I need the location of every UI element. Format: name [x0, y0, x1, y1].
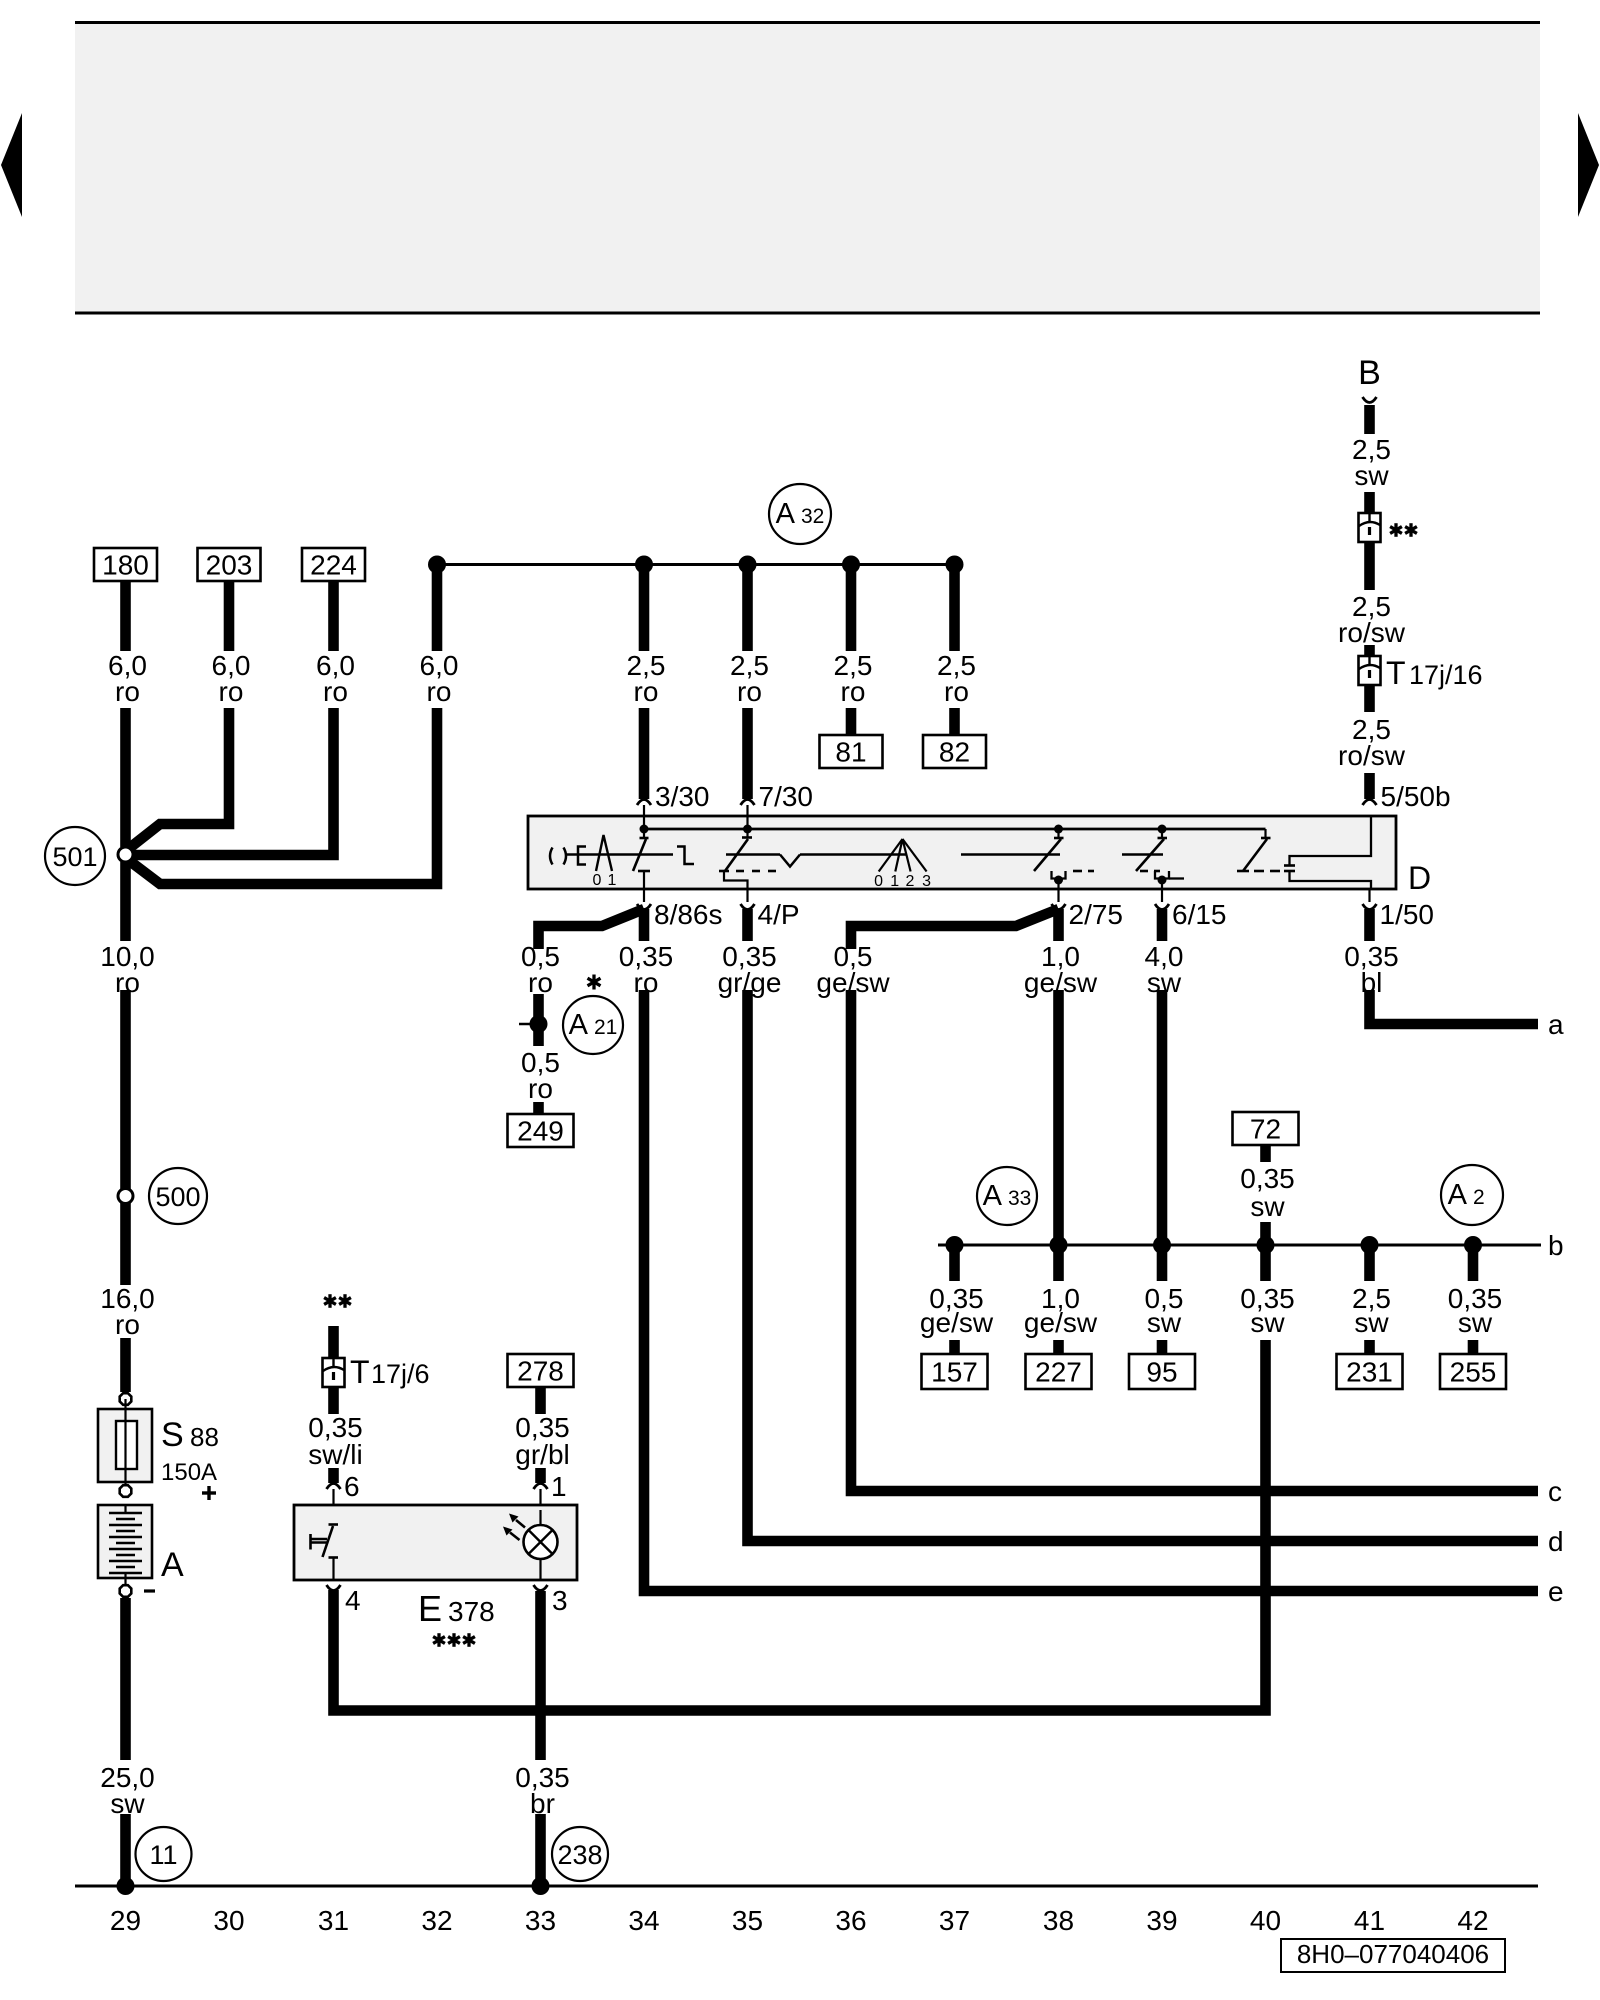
D switch4 (6/15) [1161, 829, 1163, 838]
wire 25,0 sw upper [120, 1598, 131, 1760]
svg-text:72: 72 [1250, 1114, 1281, 1145]
junction dot ground 29 [117, 1877, 135, 1895]
wire 6,0 ro col 32 upper [432, 565, 443, 652]
svg-text:30: 30 [213, 1905, 244, 1936]
junction dot b col 40 [1257, 1236, 1275, 1254]
svg-text:2/75: 2/75 [1069, 899, 1124, 930]
junction dot col 35 [739, 556, 757, 574]
terminal at fuse top [120, 1393, 132, 1405]
label + (battery) [202, 1491, 216, 1494]
terminal box 81 [820, 735, 883, 768]
svg-text:38: 38 [1043, 1905, 1074, 1936]
label - (battery) [144, 1589, 155, 1592]
terminal socket below B [1363, 397, 1377, 403]
wire 6,0 ro col 30 upper [224, 581, 235, 651]
terminal box 82 [923, 735, 986, 768]
terminal battery minus [120, 1585, 132, 1597]
wire branch 224 to node 501 [133, 708, 334, 855]
wire to pin 1 [535, 1468, 546, 1483]
svg-text:sw: sw [1354, 460, 1389, 491]
D main line notch [726, 853, 780, 856]
D bus dot 2/75 [1054, 825, 1063, 834]
svg-text:29: 29 [110, 1905, 141, 1936]
connector T17j/16 symbol [1359, 656, 1381, 685]
svg-text:255: 255 [1450, 1357, 1497, 1388]
svg-text:0: 0 [874, 873, 883, 890]
circle A21 [563, 996, 623, 1054]
svg-text:sw: sw [1147, 1307, 1182, 1338]
svg-text:231: 231 [1346, 1357, 1393, 1388]
circle 238 [552, 1827, 608, 1881]
svg-text:2: 2 [1473, 1186, 1485, 1209]
svg-text:S: S [161, 1416, 184, 1454]
wire 0,35 ro upper [639, 909, 650, 941]
svg-text:32: 32 [421, 1905, 452, 1936]
wire 2,5 ro col 36 upper [846, 565, 857, 652]
D bus dot 3/30 [640, 825, 649, 834]
svg-text:gr/bl: gr/bl [515, 1439, 569, 1470]
wire stub to box 157 [949, 1340, 960, 1354]
junction dot b col 39 [1153, 1236, 1171, 1254]
svg-text:203: 203 [206, 550, 253, 581]
wire stub to box 231 [1364, 1340, 1375, 1354]
battery A [98, 1505, 152, 1585]
junction dot col 36 [842, 556, 860, 574]
wire into connector T17j/16 [1364, 645, 1375, 656]
svg-text:ro: ro [944, 676, 969, 707]
svg-text:D: D [1408, 860, 1431, 896]
circle 500 [149, 1168, 207, 1224]
junction dot col 37 [946, 556, 964, 574]
wire 2,5 ro col 37 lower [949, 708, 960, 735]
terminal box 227 [1026, 1354, 1092, 1389]
pin socket 1 [534, 1484, 548, 1490]
E378 switch symbol [329, 1523, 339, 1526]
terminal box 180 [94, 548, 157, 581]
terminal box 203 [198, 548, 261, 581]
wire 0,35 bl upper [1364, 909, 1375, 941]
svg-text:ro: ro [528, 967, 553, 998]
wire 2,5 ro col 36 lower [846, 708, 857, 735]
svg-text:34: 34 [628, 1905, 659, 1936]
svg-text:3: 3 [552, 1585, 568, 1616]
pin line 1 [539, 1489, 541, 1525]
wire 10,0 ro upper [120, 862, 131, 941]
svg-text:A: A [776, 498, 796, 530]
svg-text:ro/sw: ro/sw [1338, 617, 1406, 648]
svg-text:40: 40 [1250, 1905, 1281, 1936]
svg-text:T: T [350, 1354, 370, 1390]
svg-text:95: 95 [1146, 1357, 1177, 1388]
pin line 6 [332, 1489, 334, 1523]
node 500 (open junction) [118, 1189, 133, 1204]
wire a: 0,35 bl to right edge [1370, 990, 1539, 1024]
pin socket 5/50b [1363, 800, 1377, 806]
svg-text:31: 31 [318, 1905, 349, 1936]
svg-text:ro: ro [427, 676, 452, 707]
wire 2,5 ro col 35 upper [742, 565, 753, 652]
wire 1,0 ge/sw to b-line [1053, 990, 1064, 1281]
pin socket 4 [327, 1585, 341, 1591]
E378 lamp symbol [524, 1525, 558, 1559]
svg-text:3/30: 3/30 [655, 781, 710, 812]
terminal box 95 [1129, 1354, 1195, 1389]
svg-text:5/50b: 5/50b [1381, 781, 1451, 812]
terminal box 249 [508, 1114, 574, 1147]
svg-text:378: 378 [448, 1596, 495, 1627]
svg-text:d: d [1548, 1526, 1564, 1557]
svg-text:T: T [1386, 655, 1406, 691]
wire stub below b col 39 [1157, 1245, 1168, 1281]
wire 2,5 ro col 34 upper [639, 565, 650, 652]
wire 2,5 ro col 37 upper [949, 565, 960, 652]
D main line right [961, 853, 1060, 856]
wire 2,5 ro col 35 lower [742, 708, 753, 799]
svg-text:4/P: 4/P [758, 899, 800, 930]
bottom rail line [75, 1885, 1538, 1888]
pin socket bottom 8/86s [643, 889, 645, 902]
pin socket top col 35 [741, 800, 755, 806]
marker *** (E378) [437, 1633, 440, 1647]
ignition-starter switch D box [528, 816, 1396, 889]
svg-text:ro: ro [115, 1309, 140, 1340]
svg-text:A: A [569, 1009, 589, 1041]
svg-text:A: A [161, 1546, 184, 1584]
svg-text:35: 35 [732, 1905, 763, 1936]
svg-text:ro: ro [634, 676, 659, 707]
svg-text:B: B [1358, 354, 1381, 392]
svg-text:ge/sw: ge/sw [1024, 1307, 1098, 1338]
D wire 5/50b to contact [1290, 816, 1372, 866]
svg-text:1: 1 [551, 1471, 567, 1502]
wire 25,0 sw lower [120, 1814, 131, 1886]
svg-text:238: 238 [557, 1840, 602, 1870]
wire 6,0 ro col29 mid [120, 708, 131, 847]
wire stub to box 249 [533, 1102, 544, 1114]
svg-text:7/30: 7/30 [759, 781, 814, 812]
terminal box 231 [1337, 1354, 1403, 1389]
wire sw/li into connector [328, 1326, 339, 1358]
pin socket bottom 2/75 [1057, 889, 1059, 902]
svg-text:88: 88 [190, 1422, 219, 1452]
terminal box 255 [1440, 1354, 1506, 1389]
wire 4,0 sw to b-line [1157, 990, 1168, 1245]
wire stub to box 227 [1053, 1340, 1064, 1354]
circle 11 [136, 1827, 192, 1881]
wire 0,35 sw long vertical + return to E378 pin4 [334, 1340, 1266, 1711]
svg-text:36: 36 [835, 1905, 866, 1936]
wire 0,35 sw stub below 72 [1260, 1145, 1271, 1162]
wire 1,0 ge/sw upper [1053, 909, 1064, 941]
svg-text:17j/16: 17j/16 [1409, 660, 1483, 690]
svg-text:E: E [418, 1588, 442, 1629]
svg-text:11: 11 [149, 1840, 177, 1870]
D switch1 (3/30-8/86s) [643, 829, 645, 838]
D main line left [567, 853, 673, 856]
svg-text:sw/li: sw/li [308, 1439, 362, 1470]
svg-text:A: A [1448, 1179, 1468, 1211]
svg-text:41: 41 [1354, 1905, 1385, 1936]
wire 0,5 ge/sw elbow from 2/75 [851, 909, 1059, 949]
svg-text:A: A [983, 1180, 1003, 1212]
svg-text:249: 249 [517, 1116, 564, 1147]
terminal box 278 [508, 1354, 574, 1387]
svg-text:0,35: 0,35 [1240, 1163, 1295, 1194]
svg-text:21: 21 [594, 1016, 617, 1039]
wire e: 0,35 ro to right edge [644, 990, 1538, 1591]
wire 2,5 sw from B [1364, 405, 1375, 434]
svg-text:sw: sw [1250, 1307, 1285, 1338]
svg-text:82: 82 [939, 737, 970, 768]
svg-text:81: 81 [835, 737, 866, 768]
junction dot b col 41 [1361, 1236, 1379, 1254]
D fan selector [879, 839, 903, 872]
D bus dot 6/15 [1158, 825, 1167, 834]
junction dot on 0,5 ro [530, 1015, 548, 1033]
svg-text:157: 157 [931, 1357, 978, 1388]
svg-text:8/86s: 8/86s [654, 899, 723, 930]
D pin line 7/30 [746, 805, 748, 829]
pin socket bottom 6/15 [1161, 889, 1163, 902]
svg-text:278: 278 [517, 1356, 564, 1387]
D wire contact to 1/50 [1290, 871, 1372, 889]
node 501 (open junction) [118, 847, 133, 862]
D symbol bracket [578, 847, 586, 865]
svg-text:ro: ro [219, 676, 244, 707]
wire 0,35 br lower [535, 1814, 546, 1886]
D symbol ( ) [550, 848, 553, 865]
wire to pin 6 [328, 1468, 339, 1483]
terminal battery plus [120, 1485, 132, 1497]
svg-text:500: 500 [155, 1182, 200, 1212]
pin socket 6 [327, 1484, 341, 1490]
wire 6,0 ro col 29 upper [120, 581, 131, 651]
pin socket top col 34 [637, 800, 651, 806]
circle A33 [977, 1167, 1037, 1225]
D switch3 (2/75) [1057, 829, 1059, 838]
wire 16,0 ro lower [120, 1338, 131, 1392]
svg-text:sw: sw [1354, 1307, 1389, 1338]
svg-text:ge/sw: ge/sw [920, 1307, 994, 1338]
left nav arrow [1, 113, 22, 217]
fuse S88 [98, 1399, 152, 1491]
svg-text:a: a [1548, 1009, 1564, 1040]
drawing number box [1281, 1939, 1505, 1972]
svg-text:6: 6 [344, 1471, 360, 1502]
wire d: 0,35 gr/ge to right edge [748, 990, 1539, 1541]
svg-text:c: c [1548, 1476, 1562, 1507]
svg-text:b: b [1548, 1230, 1564, 1261]
svg-text:sw: sw [1458, 1307, 1493, 1338]
wire net A32 (thin bus) [437, 563, 955, 566]
connector ** symbol [1359, 513, 1381, 542]
wire into connector ** [1364, 492, 1375, 513]
svg-text:33: 33 [525, 1905, 556, 1936]
D symbol lambda [596, 835, 612, 871]
wire stub below b col 41 [1364, 1245, 1375, 1281]
marker * (A21) [592, 975, 595, 990]
svg-text:ro/sw: ro/sw [1338, 740, 1406, 771]
pin socket bottom 4/P [746, 889, 748, 902]
svg-text:42: 42 [1457, 1905, 1488, 1936]
wire branch 203 to node 501 [127, 708, 229, 850]
wire to pin 5/50b [1364, 773, 1375, 799]
header band [75, 24, 1540, 312]
wire c: 0,5 ge/sw to right edge [851, 990, 1538, 1491]
svg-text:3: 3 [922, 873, 931, 890]
svg-text:1: 1 [608, 872, 617, 889]
svg-text:1/50: 1/50 [1380, 899, 1435, 930]
wire 0,35 br upper [535, 1591, 546, 1760]
svg-text:8H0–077040406: 8H0–077040406 [1297, 1939, 1489, 1969]
wire 2,5 ro/sw [1364, 542, 1375, 590]
wire 2,5 ro/sw lower [1364, 685, 1375, 712]
junction dot b col 42 [1464, 1236, 1482, 1254]
junction dot b col 37 [946, 1236, 964, 1254]
svg-text:ro: ro [115, 676, 140, 707]
wire 0,5 ro elbow from 8/86s [539, 909, 645, 949]
wire stub below b col 37 [949, 1245, 960, 1281]
terminal box 157 [922, 1354, 988, 1389]
circle A2 [1441, 1165, 1503, 1225]
wire 4,0 sw upper [1157, 909, 1168, 941]
wire 0,35 gr/ge upper [742, 909, 753, 941]
svg-text:501: 501 [52, 842, 97, 872]
marker ** (T17j/6) [328, 1294, 331, 1308]
wire 16,0 ro upper [120, 1203, 131, 1285]
svg-text:32: 32 [801, 505, 824, 528]
svg-text:4: 4 [345, 1585, 361, 1616]
wire stub below b col 42 [1468, 1245, 1479, 1281]
junction dot ground 33 [532, 1877, 550, 1895]
wire 2,5 ro col 34 lower [639, 708, 650, 799]
svg-text:ro: ro [737, 676, 762, 707]
svg-text:e: e [1548, 1576, 1564, 1607]
connector T17j/6 symbol [323, 1358, 345, 1387]
pin socket bottom 1/50 [1368, 889, 1370, 902]
wire 0,35 sw to b-line [1260, 1222, 1271, 1281]
circle 501 [45, 827, 105, 885]
D pin line 3/30 [643, 805, 645, 829]
wire stub to box 255 [1468, 1340, 1479, 1354]
pin socket 3 [534, 1585, 548, 1591]
terminal box 224 [302, 548, 365, 581]
wire 0,5 ro segment [533, 994, 544, 1046]
wire 0,35 sw/li [328, 1387, 339, 1414]
svg-text:ro: ro [841, 676, 866, 707]
D switch5 (to 1/50) [1264, 829, 1266, 838]
right nav arrow [1578, 113, 1599, 217]
E378 lamp arrows [516, 1520, 525, 1528]
D capacitor contact [1284, 864, 1295, 867]
D main line seg4 [1122, 853, 1163, 856]
svg-text:227: 227 [1035, 1357, 1082, 1388]
D switch2 (7/30-4/P) [746, 829, 748, 838]
D internal bus line [644, 828, 1266, 831]
wire 6,0 ro col 31 upper [328, 581, 339, 651]
svg-text:6/15: 6/15 [1172, 899, 1227, 930]
junction dot b col 38 [1050, 1236, 1068, 1254]
svg-text:224: 224 [310, 550, 357, 581]
svg-text:17j/6: 17j/6 [371, 1359, 430, 1389]
svg-text:0: 0 [593, 872, 602, 889]
svg-text:ro: ro [323, 676, 348, 707]
svg-text:sw: sw [1250, 1191, 1285, 1222]
wire stub to box 95 [1157, 1340, 1168, 1354]
svg-text:150A: 150A [161, 1459, 217, 1486]
junction dot col 34 [635, 556, 653, 574]
wire branch 6,0 col32 to node 501 [127, 708, 437, 884]
switch unit E378 box [294, 1505, 577, 1580]
svg-text:39: 39 [1146, 1905, 1177, 1936]
wire 0,35 gr/bl stub [535, 1387, 546, 1414]
svg-text:2: 2 [906, 873, 915, 890]
svg-text:1: 1 [890, 873, 899, 890]
junction dot col 32 [428, 556, 446, 574]
wire net b (thin bus) [938, 1244, 1541, 1247]
terminal box 72 [1233, 1112, 1299, 1145]
D return-spring step [677, 847, 694, 865]
marker ** (connector) [1394, 523, 1397, 537]
svg-text:37: 37 [939, 1905, 970, 1936]
wire 10,0 ro lower [120, 990, 131, 1189]
D bus dot 7/30 [743, 825, 752, 834]
circle A32 [769, 484, 831, 544]
svg-text:33: 33 [1008, 1187, 1031, 1210]
svg-text:ro: ro [528, 1073, 553, 1104]
svg-text:180: 180 [102, 550, 149, 581]
